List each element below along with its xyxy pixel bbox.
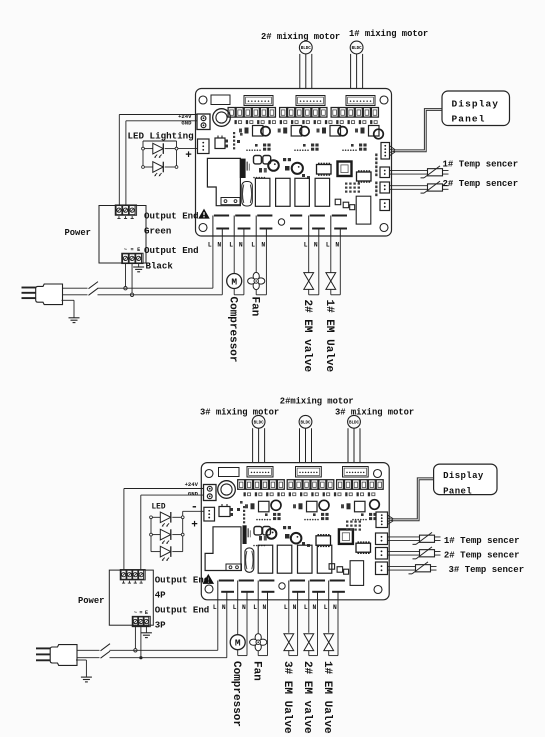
component rectangle top-left <box>211 95 230 105</box>
relay RL4 <box>298 545 313 573</box>
DIP IC U5 <box>357 172 372 181</box>
power supply box <box>109 570 153 625</box>
connector strip CN1 <box>247 467 273 478</box>
svg-text:N: N <box>263 604 267 611</box>
svg-text:N: N <box>313 604 317 611</box>
display panel box <box>442 91 510 126</box>
svg-text:+: + <box>185 150 192 162</box>
svg-text:N: N <box>222 604 226 611</box>
svg-text:Power: Power <box>65 228 91 238</box>
wire motor cable 3 conductors <box>347 428 349 466</box>
svg-text:BLDC: BLDC <box>301 47 312 51</box>
wire LED to connector <box>177 148 198 150</box>
ground symbol plug <box>69 317 80 319</box>
wire N to 2# EM valve <box>318 236 320 295</box>
component rectangle top-left <box>219 468 240 477</box>
temp sensor connector 3 <box>380 200 390 211</box>
svg-text:BLDC: BLDC <box>300 421 311 425</box>
valve 3# EM Ualve <box>284 634 294 642</box>
LED circuit left rail <box>142 141 144 167</box>
svg-text:Output End: Output End <box>155 605 210 616</box>
mixing motor BLDC 2# <box>299 41 312 54</box>
output terminal bracket 1 (L/N pads) <box>214 215 229 217</box>
thermistor symbol sensor 3 <box>416 565 431 572</box>
junction node line1 <box>124 287 127 290</box>
output terminal bracket 2 (L/N pads) <box>239 580 254 582</box>
svg-text:+: + <box>191 520 198 532</box>
connector strip CN3 <box>343 467 369 478</box>
rounded component pair <box>254 527 262 535</box>
svg-text:2# Temp sencer: 2# Temp sencer <box>443 179 519 189</box>
svg-text:Display: Display <box>452 99 500 110</box>
wire temp sensor 2 pair <box>390 185 428 187</box>
wire motor cable 3 conductors <box>252 428 254 466</box>
relay RL3 <box>276 178 291 206</box>
ground symbol power <box>141 632 152 634</box>
svg-text:Output End: Output End <box>155 575 210 586</box>
svg-text:~: ~ <box>134 610 137 616</box>
svg-text:N: N <box>333 604 337 611</box>
wire L to 3# EM Ualve <box>288 600 290 633</box>
mixing motor BLDC 2# <box>299 415 312 428</box>
small parts between caps <box>283 526 286 529</box>
DIP IC U3 <box>317 165 332 175</box>
connector strip CN3 <box>346 96 375 106</box>
mounting holes <box>205 470 213 478</box>
mixing motor BLDC 3# <box>348 415 361 428</box>
svg-text:Compressor: Compressor <box>227 297 239 363</box>
LED D2 <box>143 166 153 168</box>
output terminal bracket 1 (L/N pads) <box>219 580 234 582</box>
wire temp sensor 3 pair <box>388 565 416 567</box>
connector strip CN2 <box>296 96 325 106</box>
svg-text:Power: Power <box>78 596 104 606</box>
svg-text:2#mixing motor: 2#mixing motor <box>280 396 354 406</box>
terminal clamp group 2 <box>280 108 287 118</box>
AC input terminal block <box>132 616 150 626</box>
warning triangle <box>198 209 210 219</box>
relay RL2 <box>258 545 273 573</box>
wire GND feed <box>140 495 142 570</box>
electrolytic capacitor C10 (large) <box>245 548 254 572</box>
terminal clamp group 1 <box>238 480 245 490</box>
connector strip CN1 <box>244 96 273 106</box>
misc tiny parts mid-board <box>302 174 305 177</box>
electrolytic capacitor C10 (large) <box>242 182 253 207</box>
wire temp sensor 1 pair <box>388 536 420 538</box>
switch blade on L <box>88 287 98 290</box>
display connector 4-pin <box>376 512 388 528</box>
svg-text:Output End: Output End <box>144 210 199 221</box>
thermistor symbol sensor 1 <box>428 169 443 176</box>
LED circuit right rail <box>176 141 178 167</box>
compressor Compressor <box>227 274 242 289</box>
svg-text:1# Temp sencer: 1# Temp sencer <box>444 536 520 546</box>
thermistor symbol sensor 2 <box>420 550 435 557</box>
wire L to 2# EM valve <box>308 600 310 633</box>
svg-text:L: L <box>304 241 308 248</box>
wire +24V feed <box>118 115 120 206</box>
display panel box <box>434 464 497 495</box>
wire temp sensor 2 pair <box>388 550 420 552</box>
display cable bundle <box>388 515 394 519</box>
solder dots and component clusters <box>246 149 248 151</box>
svg-text:L: L <box>326 241 330 248</box>
wire L to Compressor <box>233 236 235 274</box>
LED circuit top wire <box>143 140 177 142</box>
wire N to 3# EM Ualve <box>297 600 299 656</box>
toroid inductor L1 <box>218 481 236 499</box>
node dots LED rails <box>150 516 153 519</box>
svg-text:3# Temp sencer: 3# Temp sencer <box>449 565 525 575</box>
relay RL1 (large) <box>205 527 241 571</box>
svg-text:Output End: Output End <box>144 245 199 256</box>
wire GND feed <box>125 121 127 206</box>
svg-text:Black: Black <box>146 260 174 271</box>
output terminal bracket 2 (L/N pads) <box>235 215 250 217</box>
svg-text:Panel: Panel <box>452 114 486 125</box>
transistor Q1 <box>219 507 230 517</box>
+24V GND power input connector <box>204 485 217 501</box>
QFP IC U4 <box>339 529 353 544</box>
valve 2# EM valve <box>304 273 314 281</box>
svg-text:3# EM Ualve: 3# EM Ualve <box>281 661 293 734</box>
svg-text:M: M <box>235 638 241 649</box>
svg-text:Compressor: Compressor <box>230 661 242 727</box>
power supply box <box>99 206 146 264</box>
svg-text:2# mixing motor: 2# mixing motor <box>261 32 340 42</box>
FENGTECH silkscreen bar <box>240 159 246 178</box>
svg-text:1# Temp sencer: 1# Temp sencer <box>443 160 519 170</box>
AC power plug <box>36 647 51 649</box>
svg-text:L: L <box>284 604 288 611</box>
svg-text:BLDC: BLDC <box>352 47 363 51</box>
small parts between caps <box>283 158 286 161</box>
svg-text:2# Temp sencer: 2# Temp sencer <box>444 551 520 561</box>
svg-text:L: L <box>213 604 217 611</box>
svg-text:GND: GND <box>188 491 199 498</box>
+24V GND power input connector <box>197 114 210 130</box>
wire AC L down <box>124 264 126 289</box>
wire AC N down <box>140 627 142 658</box>
relay RL3 <box>277 545 292 573</box>
transistor Q1 <box>215 138 225 149</box>
temp sensor connector 2 <box>376 548 388 560</box>
wire motor cable 3 conductors <box>299 428 301 466</box>
electrolytic capacitor C1 <box>268 160 279 171</box>
svg-text:L: L <box>233 604 237 611</box>
fan Fan <box>255 634 261 642</box>
output terminal bracket 3 (L/N pads) <box>257 215 272 217</box>
DC output terminal block <box>115 205 136 215</box>
svg-text:N: N <box>293 604 297 611</box>
AC input terminal block <box>122 253 143 263</box>
ground wire from terminal E <box>145 627 147 633</box>
svg-text:2# EM valve: 2# EM valve <box>301 300 313 373</box>
relay RL1 (large) <box>207 158 240 205</box>
display cable bundle <box>390 146 396 150</box>
SMD resistor row <box>235 120 237 124</box>
output driver rectangle right <box>356 196 371 224</box>
junction node line2 <box>139 656 142 659</box>
driver IC squares row <box>253 126 264 137</box>
svg-text:=: = <box>130 247 133 253</box>
valve 2# EM valve <box>304 634 314 642</box>
fan Fan <box>253 272 259 280</box>
capacitor circles row <box>271 500 281 510</box>
output terminal bracket 6 (L/N pads) <box>330 580 345 582</box>
svg-text:M: M <box>231 276 237 287</box>
svg-text:E: E <box>145 610 148 616</box>
display connector 4-pin <box>381 143 390 160</box>
svg-text:-: - <box>191 500 198 514</box>
svg-text:L: L <box>251 241 255 248</box>
LED D2 <box>151 534 160 536</box>
wire N to Compressor <box>243 236 245 295</box>
svg-text:L: L <box>208 241 212 248</box>
wire N to 2# EM valve <box>317 600 319 656</box>
svg-text:BLDC: BLDC <box>349 421 360 425</box>
terminal clamp group 2 <box>287 480 294 490</box>
ground wire from terminal E <box>138 264 140 267</box>
toroid inductor L1 <box>213 109 231 127</box>
LED circuit left rail <box>150 517 152 551</box>
wire board L to mains line1 <box>212 236 214 288</box>
output terminal bracket 5 (L/N pads) <box>310 215 325 217</box>
wire L to 1# EM Ualve <box>330 236 332 273</box>
PCB controller board <box>201 463 389 600</box>
ground symbol plug <box>81 676 92 678</box>
QFP IC U4 <box>338 162 352 177</box>
LED D3 <box>151 551 160 553</box>
temp sensor connector 1 <box>380 167 390 178</box>
wire N to Fan <box>265 236 267 295</box>
mains line L <box>63 287 213 289</box>
svg-text:LED Lighting: LED Lighting <box>128 131 194 142</box>
svg-text:LED: LED <box>152 503 166 511</box>
svg-text:N: N <box>242 604 246 611</box>
svg-text:N: N <box>335 241 339 248</box>
junction node line2 <box>130 293 133 296</box>
mixing motor BLDC 1# <box>350 41 363 54</box>
wire L to Fan <box>255 236 257 274</box>
svg-text:1# EM Ualve: 1# EM Ualve <box>321 661 333 734</box>
AC power plug <box>22 287 37 289</box>
wire L to 2# EM valve <box>308 236 310 273</box>
mixing motor BLDC 3# <box>252 415 265 428</box>
wire AC N down <box>131 264 133 295</box>
ground symbol power <box>133 266 144 268</box>
svg-text:N: N <box>314 241 318 248</box>
LED D1 <box>143 148 153 150</box>
temp sensor connector 2 <box>380 182 390 193</box>
wire LED to connector <box>183 510 204 512</box>
wire N to Compressor <box>246 600 248 656</box>
svg-text:4P: 4P <box>155 590 166 601</box>
electrolytic capacitor C2 <box>292 163 303 174</box>
terminal clamp group 3 <box>331 108 338 118</box>
terminal clamp group 3 <box>337 480 344 490</box>
temp sensor connector 1 <box>376 533 388 545</box>
compressor Compressor <box>230 635 245 650</box>
svg-text:+24V: +24V <box>185 481 199 488</box>
plug ground wire <box>76 659 86 661</box>
driver IC squares row <box>259 501 270 512</box>
svg-text:~: ~ <box>124 247 127 253</box>
thermistor symbol sensor 2 <box>428 184 443 191</box>
DIP IC U3 <box>316 536 331 546</box>
output terminal bracket 5 (L/N pads) <box>310 580 325 582</box>
electrolytic capacitor C2 <box>291 533 302 544</box>
relay RL4 <box>295 178 310 206</box>
svg-text:N: N <box>261 241 265 248</box>
terminal clamp group 1 <box>228 108 235 118</box>
wire board N to mains line2 <box>221 236 223 295</box>
small pads near output rect <box>337 567 343 573</box>
output terminal bracket 4 (L/N pads) <box>290 215 302 217</box>
LED output connector 3-pin <box>204 507 215 521</box>
wire L to 1# EM Ualve <box>328 600 330 633</box>
relay RL5 <box>315 178 330 206</box>
misc tiny parts mid-board <box>302 542 305 545</box>
wire board N to mains line2 <box>226 600 228 658</box>
wire motor cable 3 conductors <box>299 54 301 96</box>
small pads near output rect <box>343 202 349 208</box>
rounded component pair <box>254 156 262 164</box>
warning triangle <box>203 574 215 584</box>
svg-text:2# EM valve: 2# EM valve <box>301 661 313 734</box>
output terminal bracket 4 (L/N pads) <box>290 580 305 582</box>
resistor array dots <box>345 183 347 185</box>
thermistor symbol sensor 1 <box>420 535 435 542</box>
valve 1# EM Ualve <box>324 634 334 642</box>
svg-text:Green: Green <box>144 225 171 236</box>
wire L to Compressor <box>237 600 239 635</box>
wire N to 1# EM Ualve <box>337 600 339 656</box>
mains line L <box>77 649 218 651</box>
capacitor circles row <box>261 127 270 136</box>
wire board L to mains line1 <box>217 600 219 651</box>
svg-text:Display: Display <box>443 471 484 481</box>
node dots LED rails <box>142 147 145 150</box>
wire motor cable 3 conductors <box>350 54 352 96</box>
svg-text:=: = <box>139 610 142 616</box>
connector strip CN2 <box>296 467 322 478</box>
FENGTECH silkscreen bar <box>243 525 247 544</box>
svg-text:L: L <box>253 604 257 611</box>
solder dots and component clusters <box>256 519 258 521</box>
svg-text:3# mixing motor: 3# mixing motor <box>335 407 414 417</box>
wire AC L down <box>134 627 136 651</box>
mounting holes <box>199 96 207 104</box>
wire N to 1# EM Ualve <box>339 236 341 295</box>
relay RL2 <box>255 178 270 206</box>
svg-text:Panel: Panel <box>443 486 472 496</box>
svg-text:3P: 3P <box>155 620 166 631</box>
svg-text:BLDC: BLDC <box>254 421 265 425</box>
mains line N <box>77 657 227 659</box>
svg-text:N: N <box>239 241 243 248</box>
svg-text:L: L <box>304 604 308 611</box>
svg-text:L: L <box>324 604 328 611</box>
svg-text:L: L <box>229 241 233 248</box>
wire temp sensor 1 pair <box>390 169 428 171</box>
mains line N <box>63 294 223 296</box>
output driver rectangle right <box>350 561 364 586</box>
PCB controller board <box>196 89 392 237</box>
DIP IC U5 <box>356 543 371 552</box>
wire N to Fan <box>267 600 269 656</box>
svg-text:Fan: Fan <box>249 297 261 317</box>
switch blade on L <box>100 649 110 652</box>
switch blade on N <box>100 656 110 659</box>
svg-text:E: E <box>137 247 140 253</box>
LED circuit right rail <box>182 511 184 551</box>
output terminal bracket 3 (L/N pads) <box>259 580 274 582</box>
output terminal bracket 6 (L/N pads) <box>332 215 347 217</box>
relay RL5 <box>317 545 332 573</box>
LED D1 <box>151 516 160 518</box>
plug ground wire <box>62 299 75 301</box>
junction node line1 <box>134 649 137 652</box>
LED output connector 3-pin <box>198 139 210 154</box>
electrolytic capacitor C1 <box>266 529 276 539</box>
SMD resistor row <box>244 492 246 496</box>
svg-text:N: N <box>217 241 221 248</box>
svg-text:1# EM Ualve: 1# EM Ualve <box>323 300 335 373</box>
wire +24V feed <box>123 489 125 571</box>
svg-text:1# mixing motor: 1# mixing motor <box>349 29 428 39</box>
wire L to Fan <box>257 600 259 635</box>
svg-text:Fan: Fan <box>251 661 263 681</box>
valve 1# EM Ualve <box>326 273 336 281</box>
DC output terminal block <box>120 570 145 580</box>
temp sensor connector 3 <box>376 562 388 575</box>
resistor array dots <box>346 521 348 523</box>
switch blade on N <box>88 293 98 296</box>
svg-text:3# mixing motor: 3# mixing motor <box>200 407 279 417</box>
